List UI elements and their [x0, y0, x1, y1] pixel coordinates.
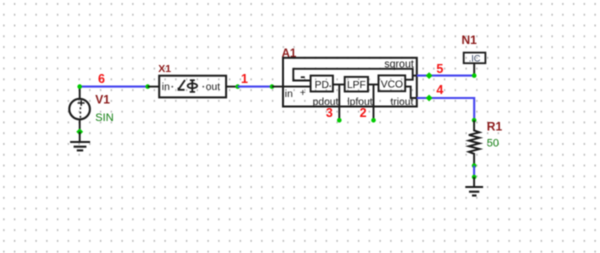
wire net6 blue V1 to X1	[80, 86, 148, 88]
minus input label	[301, 76, 305, 78]
block X1 box	[159, 76, 226, 98]
wire PD to LPF	[333, 84, 345, 86]
wire blue R1 to gnd	[473, 166, 475, 177]
svg-text:R1: R1	[487, 120, 503, 134]
svg-text:3: 3	[326, 106, 333, 120]
svg-text:.IC: .IC	[469, 54, 481, 64]
svg-text:X1: X1	[158, 63, 171, 75]
node dot 3	[337, 118, 342, 123]
junction dot A1 in	[270, 84, 275, 89]
junction diamond net4	[426, 95, 433, 102]
block PD box	[311, 76, 333, 92]
svg-text:sqrout: sqrout	[384, 58, 413, 70]
wire A1 in stub	[272, 86, 311, 88]
phase symbol angle	[178, 80, 185, 91]
junction dot X1 in	[145, 84, 150, 89]
wire stub V1 top	[79, 87, 81, 99]
ground under V1	[70, 132, 90, 151]
svg-text:4: 4	[436, 83, 443, 97]
svg-text:VCO: VCO	[381, 80, 403, 91]
block IC box	[464, 53, 486, 64]
svg-text:50: 50	[487, 137, 499, 149]
node dot 2	[371, 118, 376, 123]
junction dot X1 out	[235, 84, 240, 89]
wire lpfout stub down	[373, 85, 375, 121]
phase symbol phi	[188, 80, 198, 92]
wire net5 blue	[417, 75, 474, 77]
wire triout path	[405, 87, 417, 98]
junction dot net5 end	[472, 73, 477, 78]
pin dot X1 out	[202, 86, 204, 88]
wire V1 bottom	[79, 119, 81, 131]
block LPF box	[345, 77, 368, 92]
svg-text:1: 1	[241, 72, 248, 86]
svg-text:in: in	[162, 82, 170, 93]
junction dot R1 bottom	[472, 163, 477, 168]
wire IC stem	[473, 63, 475, 75]
svg-text:PD: PD	[315, 80, 329, 91]
wire pdout stub down	[338, 85, 340, 121]
svg-text:out: out	[206, 82, 220, 93]
svg-text:2: 2	[360, 106, 367, 120]
block A1 outer box	[283, 58, 417, 107]
svg-text:LPF: LPF	[347, 80, 366, 91]
node dot V1 gnd diamond	[76, 128, 83, 135]
wire feedback loop	[293, 69, 412, 81]
wire net4 blue	[417, 98, 474, 120]
junction dot gnd	[472, 175, 477, 180]
pin dot PD out	[329, 85, 331, 87]
block VCO box	[379, 75, 406, 91]
pin dot X1 in	[171, 86, 173, 88]
wire LPF to VCO	[368, 84, 379, 86]
svg-text:in: in	[285, 89, 293, 100]
svg-text:SIN: SIN	[95, 112, 113, 124]
svg-text:+: +	[300, 88, 306, 99]
svg-text:N1: N1	[462, 33, 478, 47]
wire sqrout to edge	[413, 75, 417, 77]
svg-text:6: 6	[98, 72, 105, 86]
svg-text:V1: V1	[95, 92, 110, 106]
wire X1 out stub	[226, 86, 238, 88]
wire X1 in stub	[148, 86, 160, 88]
wire net1 blue	[238, 86, 272, 88]
resistor R1	[469, 120, 480, 165]
source V1	[69, 99, 90, 120]
svg-text:5: 5	[436, 62, 443, 76]
junction dot R1 top	[472, 118, 477, 123]
junction dot net6 left	[77, 84, 82, 89]
ground under R1	[465, 177, 483, 196]
junction diamond net5	[426, 72, 433, 79]
